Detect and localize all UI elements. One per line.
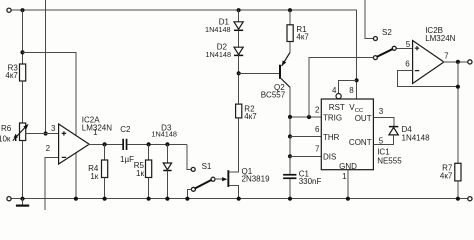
svg-text:RST: RST <box>329 103 345 112</box>
node junction output / feedback <box>456 60 460 64</box>
wire Q1 drain to R2 <box>229 118 239 172</box>
wire S1 common to Q1 gate <box>215 178 223 180</box>
wire R5 bottom to ground <box>148 178 150 199</box>
resistor R5 <box>146 160 152 178</box>
svg-text:OUT: OUT <box>355 114 372 123</box>
svg-text:3: 3 <box>379 107 384 116</box>
wire IC1 pin1 to ground <box>347 170 349 199</box>
wire R2 top lead <box>238 73 240 104</box>
wire IC2B pin6 feedback <box>397 71 458 87</box>
svg-text:THR: THR <box>323 133 340 142</box>
node junction Q2 collector / TRIG <box>288 115 292 119</box>
wire C1 bottom to ground <box>289 179 291 199</box>
node junction ground / left column <box>20 197 24 201</box>
svg-text:C2: C2 <box>120 125 131 134</box>
node junction top rail / R1 <box>288 8 292 12</box>
wire S2 upper throw (cropped at top) <box>365 0 373 39</box>
svg-text:4к7: 4к7 <box>244 112 257 121</box>
wire S2 branch up from TRIG net <box>309 58 373 117</box>
node junction ground / R7 <box>456 197 460 201</box>
wire THR net to IC1 pin 6 <box>290 136 321 138</box>
resistor R3 <box>20 64 26 81</box>
wire R6 bottom to ground rail <box>22 141 24 199</box>
terminal top-left <box>7 8 11 12</box>
switch S2 <box>373 37 377 41</box>
svg-text:DIS: DIS <box>323 152 336 161</box>
Q2 collector <box>281 79 290 88</box>
node junction output / R4 <box>103 142 107 146</box>
wiper arrow of R6 <box>13 127 26 141</box>
svg-text:IC1: IC1 <box>377 148 390 157</box>
wire IC2B output to terminal <box>443 61 468 63</box>
ground symbol <box>22 199 24 205</box>
svg-text:1N4148: 1N4148 <box>151 130 177 139</box>
IC U-IC1 NE555 box <box>321 99 373 170</box>
svg-text:1N4148: 1N4148 <box>205 25 231 34</box>
diode D4 <box>389 126 398 128</box>
wire IC1 OUT pin3 to D4 <box>373 118 394 127</box>
svg-text:1µF: 1µF <box>120 155 134 164</box>
svg-text:8: 8 <box>349 86 354 95</box>
node junction ground / R5 <box>147 197 151 201</box>
svg-text:2: 2 <box>315 105 320 114</box>
resistor R4 <box>102 160 108 178</box>
switch S1 <box>191 167 195 171</box>
wire to S1 top throw <box>187 144 191 169</box>
capacitor C2 <box>122 139 124 150</box>
wire ground rail <box>11 198 468 200</box>
svg-text:1к: 1к <box>136 169 144 178</box>
wire node to Q2 base <box>239 72 279 74</box>
wire D3 cathode to ground <box>166 171 168 199</box>
wire S2 common to IC2B pin 5 <box>396 47 412 49</box>
node junction R5 top <box>147 142 151 146</box>
terminal output right <box>468 60 472 64</box>
node junction ground / x75.9 <box>74 197 78 201</box>
node junction at (22.5,52.4) <box>20 50 24 54</box>
potentiometer R6 <box>20 123 26 141</box>
svg-text:2N3819: 2N3819 <box>242 175 271 184</box>
wire DIS node down to C1 <box>289 156 291 174</box>
wire D4 anode to CONT pin5 <box>373 135 393 145</box>
svg-text:2: 2 <box>46 144 51 153</box>
wire RST branch <box>339 80 357 93</box>
svg-text:6: 6 <box>405 59 410 68</box>
capacitor C1 <box>283 174 296 176</box>
op-amp U-IC2B <box>413 41 444 84</box>
diode D2 <box>234 47 243 54</box>
node junction ground / R4 <box>103 197 107 201</box>
wire R7 bottom to ground <box>457 181 459 199</box>
node junction ground / IC1 GND <box>346 197 350 201</box>
diode D3 <box>166 144 168 163</box>
svg-text:6: 6 <box>315 125 320 134</box>
svg-text:4к7: 4к7 <box>5 71 18 80</box>
adjustment up-arrow mark <box>15 137 17 141</box>
resistor R2 <box>236 104 242 118</box>
inversion bubble on pin 4 <box>336 94 341 99</box>
svg-text:1N4148: 1N4148 <box>402 133 431 142</box>
wire THR to DIS <box>289 137 291 157</box>
node junction DIS <box>288 154 292 158</box>
node junction ground / Q1 source <box>237 197 241 201</box>
wire feedback down to R7 <box>457 62 459 163</box>
wire IC2A output to C2 <box>88 143 122 145</box>
wire C2 right to S1 branch <box>127 143 186 145</box>
node junction TRIG / S2 branch <box>307 115 311 119</box>
diode D1 <box>238 10 240 22</box>
transistor Q1 gate bar <box>227 170 229 187</box>
svg-text:1: 1 <box>93 128 98 137</box>
node junction THR <box>288 134 292 138</box>
wire R5 top lead <box>148 144 150 160</box>
node junction wiper net / pin3 <box>44 131 48 135</box>
resistor R1 <box>289 10 291 25</box>
node junction D2 / R2 / Q2 base <box>237 71 241 75</box>
wire R4 bottom to ground <box>104 178 106 199</box>
wire top supply rail <box>11 10 357 99</box>
node junction D3 top <box>165 142 169 146</box>
terminal bottom-right <box>468 197 472 201</box>
node junction ground / D3 <box>165 197 169 201</box>
wire DIS net to IC1 pin 7 <box>290 155 321 157</box>
svg-text:4к7: 4к7 <box>296 33 309 42</box>
svg-text:LM324N: LM324N <box>425 34 455 43</box>
op-amp U-IC2A <box>59 124 90 164</box>
svg-text:1N4148: 1N4148 <box>205 50 231 59</box>
node junction ground / C1 <box>288 197 292 201</box>
node junction top rail / R3 branch <box>20 8 24 12</box>
svg-text:S1: S1 <box>202 162 212 171</box>
svg-text:1: 1 <box>342 172 347 181</box>
terminal bottom-left <box>7 197 11 201</box>
svg-text:5: 5 <box>406 40 411 49</box>
resistor R7 <box>455 163 461 181</box>
wire Q1 source to ground <box>229 185 239 198</box>
svg-text:4к7: 4к7 <box>440 172 453 181</box>
wire R6 wiper to IC2A pin 3 <box>26 133 59 135</box>
node junction VCC / RST branch <box>355 78 359 82</box>
svg-text:NE555: NE555 <box>377 157 402 166</box>
wire TRIG net to IC1 pin 2 <box>290 116 321 118</box>
wire left column from top rail down to R3 <box>22 10 24 64</box>
wire branch from (22.5,52.4) right and down to ground <box>23 52 76 198</box>
svg-text:GND: GND <box>339 162 357 171</box>
wire D2 cathode down to node <box>238 55 240 73</box>
svg-text:7: 7 <box>444 51 449 60</box>
svg-text:3: 3 <box>51 124 56 133</box>
wire long vertical net at x=45.6 (cropped at top) <box>45 0 47 134</box>
wire S1 bottom throw to ground <box>187 189 191 198</box>
svg-text:330nF: 330nF <box>299 177 322 186</box>
svg-text:S2: S2 <box>382 28 392 37</box>
node junction top rail / D1 <box>237 8 241 12</box>
svg-text:TRIG: TRIG <box>323 114 342 123</box>
svg-text:BC557: BC557 <box>261 90 286 99</box>
node junction feedback / R7 <box>456 85 460 89</box>
transistor Q2 base bar <box>279 65 281 79</box>
svg-text:1к: 1к <box>90 172 98 181</box>
wire R4 top lead <box>104 144 106 160</box>
svg-text:7: 7 <box>315 145 320 154</box>
wire R3 bottom to R6 top <box>22 81 24 123</box>
wire TRIG to THR <box>289 117 291 137</box>
svg-text:4: 4 <box>332 86 337 95</box>
wire D1 cathode to D2 anode <box>238 30 240 47</box>
wire IC2A pin 2 going down (cropped at bottom) <box>45 158 58 211</box>
svg-text:CONT: CONT <box>349 138 372 147</box>
Q2 emitter with arrow <box>282 52 290 66</box>
svg-text:R6: R6 <box>1 124 12 133</box>
node junction ground / S1 <box>185 197 189 201</box>
svg-text:10к: 10к <box>0 134 11 143</box>
